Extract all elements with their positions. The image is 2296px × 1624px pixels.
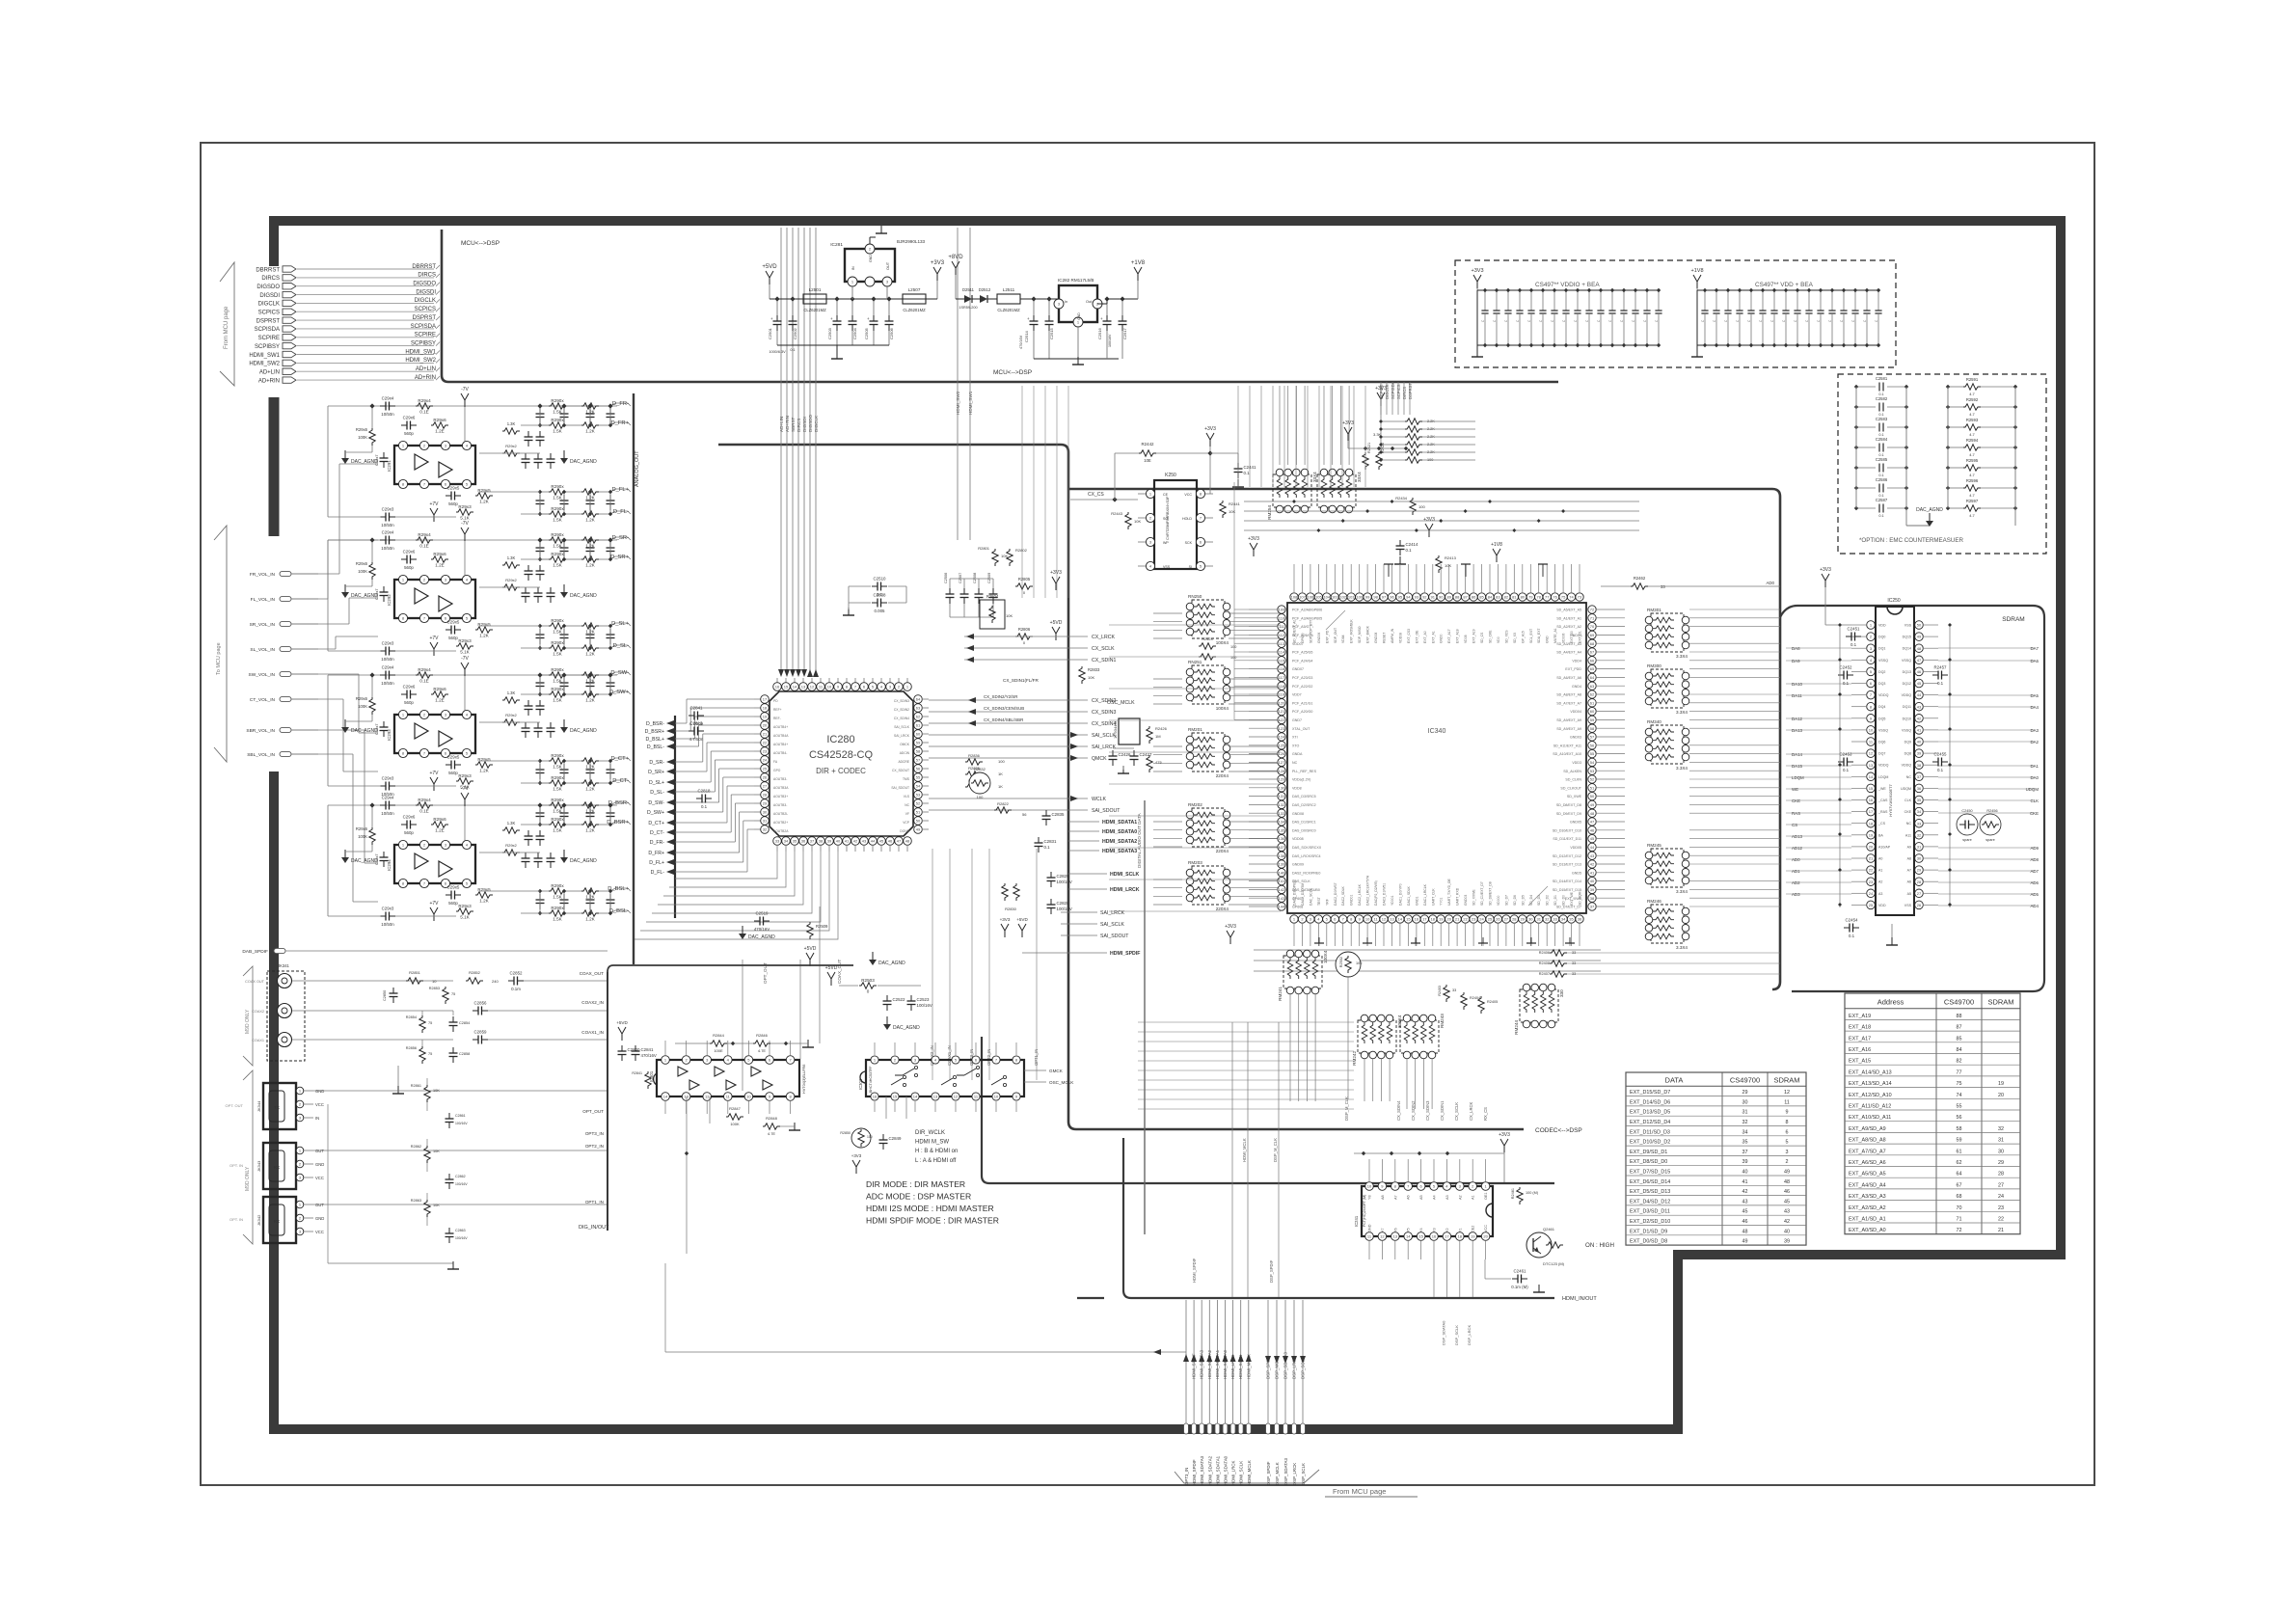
QFP bottom rails: [1254, 949, 1601, 951]
svg-text:1.5K: 1.5K: [553, 895, 562, 900]
svg-text:C2586: C2586: [1876, 477, 1888, 482]
svg-text:SCPISDA: SCPISDA: [255, 327, 280, 333]
svg-text:101: 101: [1348, 595, 1355, 600]
output network D_SR+: [549, 556, 566, 562]
svg-text:R29x6: R29x6: [433, 687, 446, 691]
svg-text:C2514: C2514: [1024, 330, 1029, 342]
svg-text:39: 39: [1742, 1159, 1748, 1165]
svg-text:UART_RXD: UART_RXD: [1456, 887, 1460, 906]
svg-text:82: 82: [1957, 1059, 1962, 1065]
To MCU page volume inputs: [214, 526, 227, 762]
svg-text:CX_LRCK: CX_LRCK: [1469, 1101, 1473, 1121]
svg-text:55: 55: [1590, 751, 1595, 756]
svg-text:12: 12: [954, 1095, 959, 1099]
svg-text:DA6: DA6: [2030, 659, 2039, 663]
svg-text:23: 23: [763, 749, 768, 754]
svg-text:HDMI_SDATA2: HDMI_SDATA2: [1207, 1349, 1212, 1379]
svg-text:12: 12: [810, 685, 815, 690]
svg-text:VDDQ: VDDQ: [1902, 693, 1912, 697]
wire HDMI_SW2: [297, 362, 434, 364]
svg-text:VCC: VCC: [315, 1176, 324, 1180]
svg-text:3.3X4: 3.3X4: [1676, 889, 1688, 894]
svg-text:DQ2: DQ2: [1878, 670, 1885, 674]
input connector SL_VOL_IN: [280, 646, 291, 651]
svg-text:PCF_A23/G3: PCF_A23/G3: [1292, 676, 1312, 680]
svg-text:COAX1_IN: COAX1_IN: [581, 1030, 604, 1035]
svg-text:64: 64: [916, 697, 921, 702]
svg-text:HVT04(3)ELLFR6: HVT04(3)ELLFR6: [802, 1065, 806, 1094]
svg-text:C2829: C2829: [1057, 874, 1069, 879]
wire SCPISDA: [297, 328, 434, 330]
svg-text:CX_SCLK: CX_SCLK: [1454, 1102, 1459, 1121]
gain resistor: [456, 778, 473, 784]
svg-text:M9D ONLY: M9D ONLY: [245, 1166, 251, 1191]
svg-text:HDMI_SDATA3: HDMI_SDATA3: [1200, 1455, 1204, 1485]
svg-text:1.2K: 1.2K: [585, 828, 595, 833]
svg-text:HDMI_MCLK: HDMI_MCLK: [1242, 1138, 1247, 1162]
svg-text:47: 47: [1917, 658, 1922, 663]
svg-text:R29x3: R29x3: [458, 638, 472, 643]
bank cap 7: [1553, 290, 1555, 311]
svg-text:120: 120: [1279, 700, 1285, 705]
svg-text:VSSQ: VSSQ: [1878, 728, 1888, 732]
svg-text:DQ6: DQ6: [1878, 741, 1885, 744]
wire DIRCS: [297, 277, 434, 279]
svg-text:EXT_D15/SD_D7: EXT_D15/SD_D7: [1630, 1090, 1670, 1096]
svg-text:RX: RX: [274, 1219, 280, 1224]
svg-text:CKE: CKE: [1792, 798, 1800, 803]
EMC cap C2586: [1856, 487, 1876, 489]
svg-text:VDD05: VDD05: [1570, 846, 1581, 850]
svg-text:C2859: C2859: [474, 1030, 487, 1035]
IC241 FCT244 buffer: [1362, 1186, 1493, 1236]
svg-text:SAI_SDOUT: SAI_SDOUT: [891, 786, 909, 790]
svg-text:DIGITAL AUDIO OUT DATA: DIGITAL AUDIO OUT DATA: [1137, 812, 1142, 868]
svg-text:C2508: C2508: [973, 573, 977, 583]
svg-text:R29x3: R29x3: [458, 773, 472, 778]
svg-text:HDMI_SPDIF: HDMI_SPDIF: [1110, 951, 1140, 957]
svg-text:VSSQ: VSSQ: [1878, 659, 1888, 663]
svg-text:48: 48: [905, 839, 910, 844]
svg-text:DA4: DA4: [2030, 705, 2039, 710]
IC280 right signal labels upper: [964, 636, 1088, 637]
svg-text:D_BSL-: D_BSL-: [647, 744, 664, 750]
svg-text:+5VD: +5VD: [1016, 917, 1028, 922]
svg-text:41: 41: [1590, 870, 1595, 875]
svg-text:CX_SDIN1(FL/FR: CX_SDIN1(FL/FR: [1003, 678, 1039, 683]
R2413: [1436, 555, 1442, 573]
EMC cap C2585: [1856, 467, 1876, 469]
svg-text:IC340: IC340: [1428, 728, 1446, 735]
svg-text:HDMI_SDATA1: HDMI_SDATA1: [1215, 1455, 1220, 1485]
svg-text:45: 45: [1784, 1199, 1790, 1204]
block bottom cap: [380, 785, 386, 787]
coax2 network: [473, 1010, 478, 1012]
table DATA: [1626, 1072, 1806, 1245]
svg-text:DAB_SPDIF: DAB_SPDIF: [242, 949, 268, 955]
svg-text:SD_D5: SD_D5: [1521, 895, 1525, 906]
svg-text:R29x3: R29x3: [458, 504, 472, 509]
mesh caps: [527, 700, 529, 706]
capacitor C2502: [792, 315, 794, 321]
svg-text:R2595: R2595: [1966, 458, 1979, 463]
switch outputs: [1024, 1069, 1046, 1071]
svg-text:-7V: -7V: [461, 387, 469, 392]
IC280 top pins: [776, 678, 778, 683]
bank cap 6: [1762, 290, 1764, 311]
svg-text:IC301: IC301: [649, 1070, 654, 1082]
svg-text:128: 128: [1279, 769, 1285, 773]
svg-text:C2850: C2850: [383, 990, 387, 1001]
svg-text:VCP: VCP: [903, 821, 910, 825]
EMC resistor R2596: [1963, 485, 1981, 491]
svg-text:40: 40: [1784, 1229, 1790, 1234]
svg-text:DIGSDO: DIGSDO: [257, 284, 280, 290]
svg-text:54: 54: [1590, 760, 1595, 765]
svg-text:31: 31: [1998, 1138, 2004, 1144]
svg-text:10: 10: [1869, 728, 1874, 733]
R2406-R2407 33ohm: [1550, 950, 1567, 956]
svg-text:SD_D10/EXT_D10: SD_D10/EXT_D10: [1553, 828, 1581, 832]
svg-text:68: 68: [1957, 1194, 1962, 1200]
svg-text:CE: CE: [1163, 493, 1169, 497]
svg-text:26: 26: [763, 775, 768, 780]
svg-text:VDDa(1.2V): VDDa(1.2V): [1292, 778, 1310, 782]
svg-text:8: 8: [1786, 1120, 1789, 1125]
svg-text:OPT. IN: OPT. IN: [230, 1217, 243, 1222]
svg-text:SD_D6: SD_D6: [1513, 895, 1517, 906]
svg-text:AD+LIN: AD+LIN: [779, 417, 784, 432]
svg-text:AOUTB4-: AOUTB4-: [773, 751, 787, 755]
svg-text:OMCK: OMCK: [900, 743, 910, 746]
svg-text:L2507: L2507: [908, 287, 921, 292]
C2451: [1846, 636, 1851, 637]
bank cap 14: [1854, 290, 1856, 311]
svg-text:0.1: 0.1: [1244, 471, 1251, 475]
capacitor C2503: [836, 315, 838, 321]
svg-text:D_FR-: D_FR-: [612, 401, 629, 407]
svg-text:43: 43: [1742, 1199, 1748, 1204]
svg-text:28: 28: [1917, 880, 1922, 884]
svg-text:SBR_VOL_IN: SBR_VOL_IN: [246, 728, 275, 734]
input resistor: [416, 802, 433, 808]
svg-text:30: 30: [1998, 1149, 2004, 1154]
svg-text:COAX2: COAX2: [252, 1010, 264, 1014]
svg-text:11: 11: [1784, 1099, 1790, 1105]
bank cap 13: [1623, 290, 1625, 311]
svg-text:DSP_SDATA3: DSP_SDATA3: [1283, 1458, 1288, 1485]
svg-text:21: 21: [1869, 856, 1874, 861]
vertical wires codec-bottom to dig section: [932, 849, 933, 1080]
svg-text:R290x: R290x: [551, 687, 564, 691]
svg-text:JK344: JK344: [257, 1100, 261, 1112]
R2425: [1147, 755, 1152, 772]
svg-text:SAI_SCLK: SAI_SCLK: [1100, 922, 1124, 928]
svg-text:108: 108: [1291, 595, 1298, 600]
bank cap 5: [1530, 290, 1532, 311]
capacitor C2501: [776, 315, 778, 321]
svg-text:14: 14: [1869, 774, 1874, 779]
diode D2512: [972, 298, 980, 300]
svg-text:2: 2: [1786, 1159, 1789, 1165]
RN251 resistor pack: [1192, 665, 1225, 704]
svg-text:CKE: CKE: [1904, 810, 1912, 814]
ground: [836, 351, 838, 359]
svg-text:GNDA: GNDA: [1292, 752, 1303, 756]
svg-text:R2591: R2591: [1966, 377, 1979, 382]
RM203 pack: [1192, 866, 1225, 905]
svg-text:34: 34: [1742, 1129, 1748, 1135]
svg-text:R29x2: R29x2: [505, 843, 517, 848]
svg-text:NC: NC: [1906, 775, 1912, 779]
svg-text:60: 60: [916, 732, 921, 737]
svg-text:DA10: DA10: [1792, 682, 1803, 687]
comp cap: [446, 629, 451, 631]
svg-text:IC303: IC303: [858, 1078, 863, 1090]
svg-text:30: 30: [1917, 856, 1922, 861]
filter block IC294: [328, 804, 617, 806]
svg-text:VLS: VLS: [904, 795, 910, 798]
svg-text:MCU<-->DSP: MCU<-->DSP: [461, 240, 500, 247]
svg-text:R29x4: R29x4: [418, 798, 431, 802]
svg-text:D_SR+: D_SR+: [648, 770, 664, 775]
wire SCPICS: [297, 311, 434, 312]
svg-text:0.1: 0.1: [1937, 768, 1944, 772]
bias resistor: [369, 827, 375, 845]
svg-text:NC: NC: [905, 803, 909, 807]
svg-text:C2426: C2426: [1119, 752, 1131, 757]
svg-text:100/16V: 100/16V: [455, 1122, 468, 1125]
svg-text:VDD: VDD: [1878, 624, 1886, 628]
svg-text:28: 28: [763, 793, 768, 798]
coax connector COAX2: [278, 1004, 292, 1018]
svg-text:VF: VF: [905, 812, 909, 816]
svg-text:14: 14: [663, 1095, 668, 1099]
left fan wires to QFP: [1234, 609, 1249, 610]
svg-text:RESET: RESET: [1383, 633, 1387, 643]
filter block IC291: [328, 405, 617, 407]
svg-text:100X4: 100X4: [1216, 640, 1229, 645]
svg-text:CS42528-CQ: CS42528-CQ: [809, 749, 873, 761]
svg-text:DQ13: DQ13: [1903, 670, 1911, 674]
svg-text:EXT_A17: EXT_A17: [1447, 629, 1451, 643]
svg-text:D_FL+: D_FL+: [649, 860, 664, 866]
verticals below M0 near K250: [1021, 386, 1023, 598]
svg-text:DAC_AGND: DAC_AGND: [570, 858, 597, 864]
svg-text:C2506: C2506: [889, 327, 894, 339]
svg-text:Address: Address: [1877, 998, 1904, 1007]
op-amp IC293: [394, 715, 475, 753]
svg-text:+3V3: +3V3: [1342, 420, 1354, 426]
svg-text:LDQM: LDQM: [1878, 775, 1888, 779]
svg-text:PLL_REF_RES: PLL_REF_RES: [1292, 770, 1317, 773]
svg-text:C2523: C2523: [917, 997, 930, 1002]
wire DSPRST: [297, 319, 434, 321]
svg-text:C29x3: C29x3: [382, 907, 394, 911]
svg-text:RM246: RM246: [1647, 899, 1661, 904]
svg-text:32: 32: [1545, 917, 1550, 922]
svg-text:SD_D15/EXT_D15: SD_D15/EXT_D15: [1553, 888, 1581, 892]
svg-text:DAC3_D1/W51: DAC3_D1/W51: [1383, 883, 1387, 906]
svg-text:EXT_A17: EXT_A17: [1849, 1036, 1871, 1042]
svg-text:560p: 560p: [448, 636, 458, 640]
svg-text:R2596: R2596: [1966, 478, 1979, 483]
regulator IC281: [845, 249, 895, 282]
svg-text:Y4: Y4: [1419, 1228, 1423, 1232]
svg-text:A7: A7: [1907, 869, 1911, 873]
svg-text:DAC2_LRCLK: DAC2_LRCLK: [1358, 883, 1362, 906]
svg-text:SD_D9/EXT_D9: SD_D9/EXT_D9: [1556, 812, 1581, 816]
svg-text:L : A & HDMI off: L : A & HDMI off: [915, 1158, 957, 1164]
svg-text:C2455: C2455: [1934, 752, 1947, 757]
input connector FL_VOL_IN: [280, 596, 291, 601]
svg-text:58: 58: [1957, 1126, 1962, 1132]
output network D_SL-: [549, 645, 566, 651]
svg-text:IN: IN: [315, 1116, 319, 1121]
svg-text:XTO: XTO: [1292, 744, 1300, 747]
svg-text:10: 10: [1365, 917, 1370, 922]
SDRAM caps: [1838, 674, 1844, 676]
svg-text:COAX2_IN: COAX2_IN: [581, 1000, 604, 1005]
svg-text:VD08: VD08: [1464, 635, 1468, 643]
svg-text:144: 144: [1279, 905, 1285, 909]
svg-text:85: 85: [1479, 595, 1484, 600]
DAC_AGND: [344, 584, 346, 592]
svg-text:A11: A11: [1905, 833, 1911, 837]
svg-text:CX_SDIN2: CX_SDIN2: [1411, 1100, 1416, 1121]
svg-text:46: 46: [1742, 1219, 1748, 1225]
svg-text:10/50n: 10/50n: [381, 546, 394, 551]
svg-text:EXT_WE: EXT_WE: [1570, 891, 1574, 906]
svg-text:42: 42: [1784, 1219, 1790, 1225]
R2441: [1220, 501, 1226, 518]
svg-text:AOUTB4+: AOUTB4+: [773, 725, 788, 729]
wire SCPIRE: [297, 337, 434, 338]
svg-text:0.1m: 0.1m: [511, 987, 521, 991]
svg-text:79: 79: [1528, 595, 1533, 600]
svg-text:90: 90: [1439, 595, 1444, 600]
bus wire HDMI_SDATA2: [1208, 1300, 1210, 1424]
svg-text:220X4: 220X4: [1216, 907, 1229, 911]
svg-text:A0: A0: [1878, 857, 1882, 861]
svg-text:0.1: 0.1: [1843, 681, 1850, 686]
svg-text:100: 100: [998, 759, 1005, 764]
svg-text:1.3K: 1.3K: [507, 821, 516, 826]
svg-text:EXT_D2/SD_D10: EXT_D2/SD_D10: [1630, 1219, 1670, 1225]
svg-text:R2426: R2426: [1155, 726, 1168, 731]
svg-text:10: 10: [994, 1095, 999, 1099]
svg-text:29: 29: [763, 801, 768, 806]
svg-text:EXP_MOSI/BLK: EXP_MOSI/BLK: [1350, 619, 1354, 643]
svg-text:RM243: RM243: [1440, 1014, 1445, 1028]
svg-text:RM242: RM242: [1352, 1051, 1357, 1066]
svg-text:VDDQ: VDDQ: [1878, 764, 1889, 768]
svg-text:C2510: C2510: [874, 577, 886, 582]
svg-text:HDMI_SPDIF: HDMI_SPDIF: [1192, 1459, 1197, 1485]
R2801 R2802 pull resistors: [992, 549, 998, 566]
IC280 left signal arrows: [674, 716, 676, 918]
svg-text:10/50n: 10/50n: [381, 657, 394, 662]
svg-text:A5: A5: [1419, 1195, 1423, 1200]
DAC_AGND: [886, 1016, 888, 1024]
svg-text:VSS: VSS: [1904, 904, 1912, 907]
svg-text:SD_A7/EXT_A7: SD_A7/EXT_A7: [1556, 701, 1581, 705]
bus wire HDMI_SDATA3: [1201, 1300, 1202, 1424]
coax connector COAX1: [278, 1033, 292, 1047]
svg-text:560p: 560p: [404, 431, 414, 436]
svg-text:13: 13: [933, 1095, 938, 1099]
svg-text:115: 115: [1279, 658, 1285, 663]
svg-text:K250: K250: [1165, 473, 1176, 478]
svg-text:48: 48: [1590, 811, 1595, 816]
svg-text:Y1: Y1: [1458, 1228, 1462, 1232]
block bottom cap: [380, 516, 386, 518]
svg-text:COAX_OUT: COAX_OUT: [837, 960, 842, 984]
svg-text:28: 28: [1998, 1172, 2004, 1177]
svg-text:To MCU page: To MCU page: [216, 642, 222, 675]
input connector SBL_VOL_IN: [280, 751, 291, 756]
svg-text:SO: SO: [1163, 517, 1168, 521]
svg-text:EXT_D9/SD_D1: EXT_D9/SD_D1: [1630, 1150, 1667, 1155]
svg-text:DAC2_D2/Y5M: DAC2_D2/Y5M: [1301, 883, 1305, 906]
svg-text:33: 33: [1917, 821, 1922, 826]
svg-text:136: 136: [1279, 836, 1285, 841]
svg-text:DIRCS: DIRCS: [261, 276, 280, 282]
svg-text:DAC_SCLK: DAC_SCLK: [1309, 887, 1312, 906]
bank cap 15: [1866, 290, 1868, 311]
thick bus frame: [274, 221, 2061, 1429]
svg-text:SAI_LRCK: SAI_LRCK: [894, 734, 910, 738]
R2443: [1125, 512, 1131, 529]
svg-text:76: 76: [1553, 595, 1557, 600]
svg-text:IC291: IC291: [387, 460, 392, 472]
svg-text:12: 12: [1784, 1090, 1790, 1096]
input cap: [380, 674, 386, 676]
svg-text:SD_A10/EXT_A10: SD_A10/EXT_A10: [1553, 752, 1581, 756]
svg-text:40: 40: [1917, 740, 1922, 744]
R2804 boxed resistor: [980, 600, 1005, 629]
bus wire HDMI_SDATA0: [1225, 1300, 1227, 1424]
svg-text:R2846: R2846: [756, 1033, 769, 1038]
svg-text:LDQM: LDQM: [1792, 775, 1804, 780]
svg-text:39: 39: [827, 839, 832, 844]
IC250 pins: [1867, 621, 1876, 630]
svg-text:50: 50: [916, 819, 921, 824]
svg-text:EXT_D11/SD_D3: EXT_D11/SD_D3: [1630, 1129, 1670, 1135]
DAC_AGND: [344, 450, 346, 458]
codec vdd caps C2507-C2509: [949, 588, 951, 594]
svg-text:AOUTB4A: AOUTB4A: [773, 734, 789, 738]
svg-text:62: 62: [1590, 692, 1595, 697]
svg-text:R29x6: R29x6: [356, 696, 368, 701]
svg-text:EXT_A2/SD_A2: EXT_A2/SD_A2: [1849, 1205, 1886, 1211]
svg-text:69: 69: [1590, 633, 1595, 637]
svg-text:AOUTB2A: AOUTB2A: [773, 829, 789, 833]
svg-text:AD+RIN: AD+RIN: [785, 416, 790, 432]
svg-text:RX: RX: [274, 1165, 280, 1170]
codec to opt section verticals: [742, 960, 743, 1091]
wire DIGSDI: [297, 294, 434, 296]
svg-text:_CS: _CS: [1877, 822, 1886, 826]
svg-text:140: 140: [1279, 870, 1285, 875]
svg-text:4.7: 4.7: [1969, 452, 1975, 457]
svg-text:94: 94: [1406, 595, 1411, 600]
svg-text:1.5K: 1.5K: [553, 765, 562, 770]
svg-text:21: 21: [1455, 917, 1460, 922]
svg-text:EXT_PDD: EXT_PDD: [1565, 667, 1581, 671]
svg-text:DAC2_SDLK: DAC2_SDLK: [1341, 885, 1345, 906]
stair wires below codec: [675, 852, 777, 879]
